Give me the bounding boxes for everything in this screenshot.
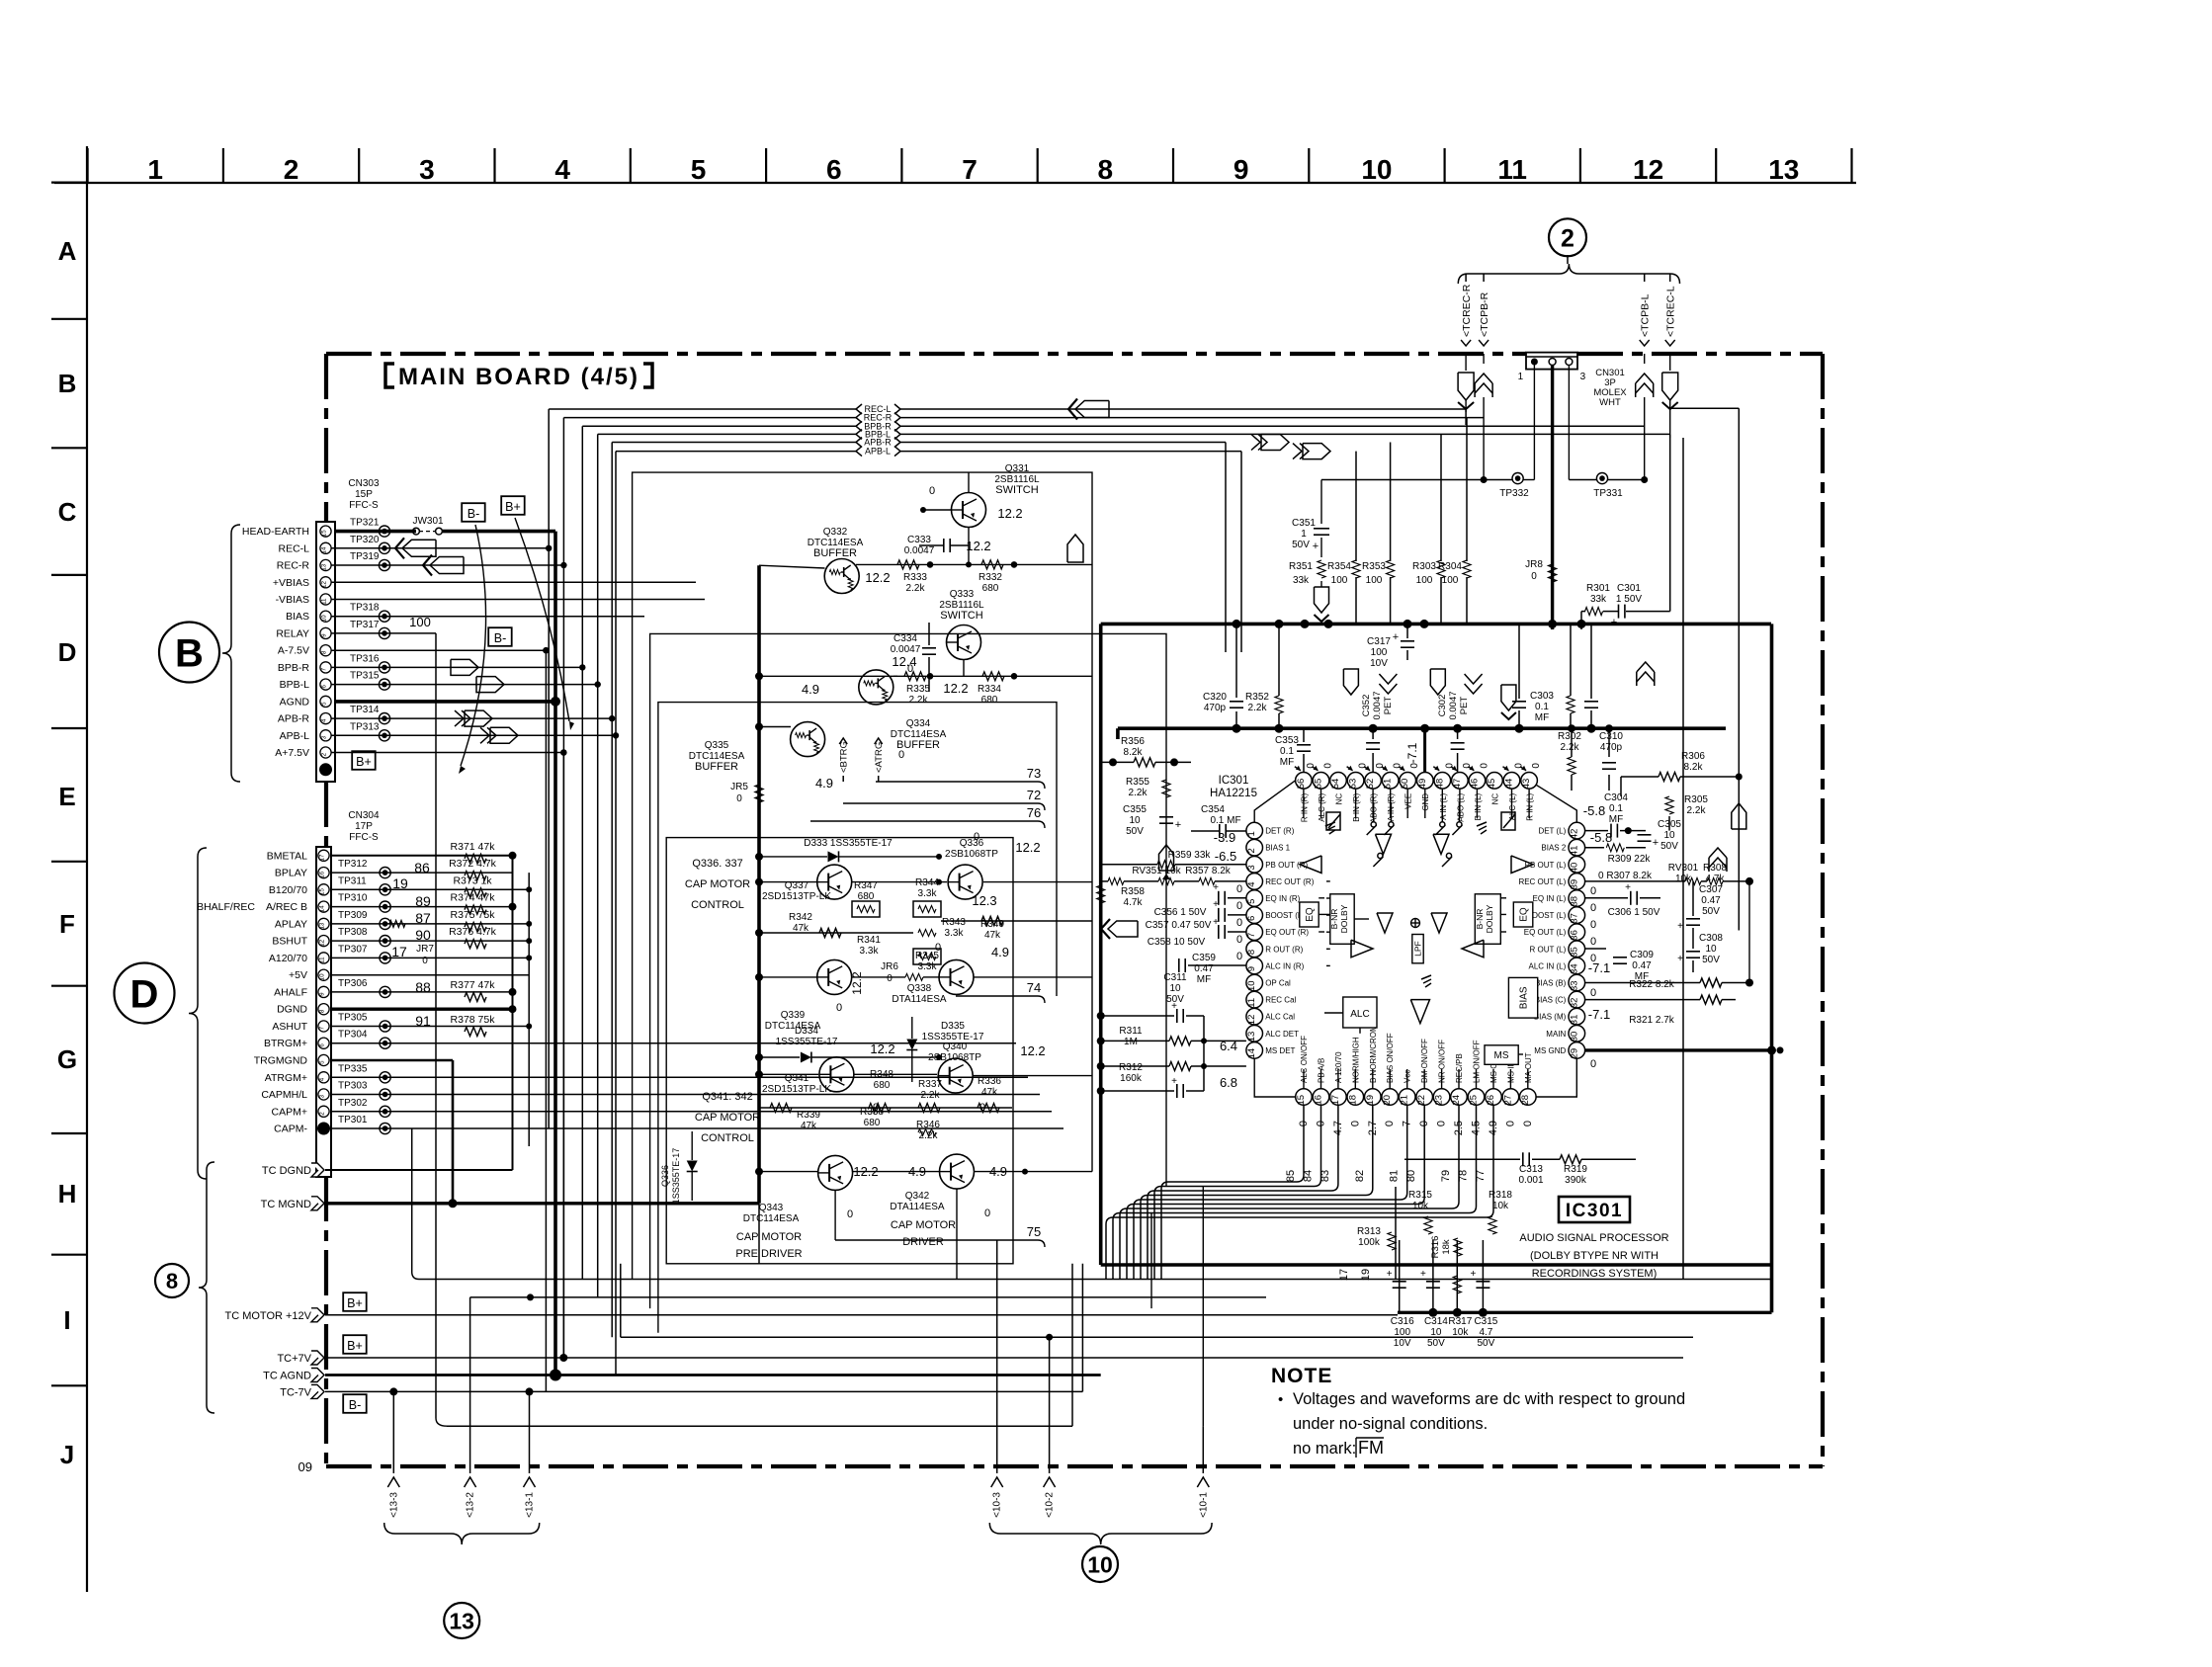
svg-text:NC: NC [1491,793,1500,805]
svg-text:6: 6 [321,685,328,689]
svg-text:C303: C303 [1530,691,1554,702]
svg-text:A+7.5V: A+7.5V [275,747,309,759]
svg-text:TP302: TP302 [338,1098,368,1109]
svg-text:+: + [1213,899,1219,910]
svg-text:RECORDINGS SYSTEM): RECORDINGS SYSTEM) [1532,1268,1658,1280]
svg-text:TP313: TP313 [350,721,380,732]
svg-text:BPB-L: BPB-L [280,679,310,691]
svg-text:10: 10 [1663,830,1675,841]
svg-text:APLAY: APLAY [275,918,307,930]
svg-text:C333: C333 [907,535,931,545]
svg-text:680: 680 [874,1080,891,1091]
svg-text:1: 1 [1246,831,1257,836]
svg-text:Q336: Q336 [660,1165,670,1187]
svg-text:I: I [63,1305,70,1335]
svg-text:75: 75 [1027,1224,1041,1239]
svg-text:R371 47k: R371 47k [451,841,496,853]
svg-text:C304: C304 [1604,792,1628,803]
svg-text:10: 10 [1169,983,1181,994]
svg-text:B+: B+ [356,755,372,769]
svg-text:C317: C317 [1367,636,1391,647]
svg-text:4.7k: 4.7k [1124,897,1144,908]
svg-text:R IN (L): R IN (L) [1526,792,1535,820]
svg-text:ALC Cal: ALC Cal [1265,1013,1295,1022]
svg-text:D: D [130,972,159,1016]
svg-text:+: + [1677,921,1683,932]
svg-text:10: 10 [1129,815,1141,826]
svg-text:0.1: 0.1 [1609,803,1623,814]
svg-text:B-: B- [468,507,480,521]
svg-text:JW301: JW301 [412,516,444,527]
svg-text:-6.5: -6.5 [1215,849,1236,864]
svg-text:0: 0 [836,1002,842,1014]
svg-text:H: H [58,1179,77,1209]
svg-text:0: 0 [736,793,742,804]
svg-text:6.4: 6.4 [1220,1039,1237,1053]
svg-text:18: 18 [1347,1095,1358,1106]
svg-text:R351: R351 [1289,561,1313,572]
svg-text:C305: C305 [1658,819,1681,830]
svg-text:•: • [1278,1391,1283,1408]
svg-text:D334: D334 [795,1026,818,1037]
svg-text:<ATRG: <ATRG [874,742,885,773]
svg-text:4: 4 [554,154,570,185]
svg-text:CN304: CN304 [348,810,380,821]
svg-text:E: E [58,782,75,811]
svg-text:TP305: TP305 [338,1013,368,1024]
svg-text:C311: C311 [1163,972,1187,983]
svg-text:15: 15 [319,888,326,895]
svg-text:AUDIO SIGNAL PROCESSOR: AUDIO SIGNAL PROCESSOR [1519,1232,1668,1244]
svg-text:12.2: 12.2 [870,1042,894,1056]
svg-text:R332: R332 [978,572,1002,583]
svg-text:7: 7 [319,1026,326,1030]
svg-text:ABO (L): ABO (L) [1456,792,1465,821]
svg-text:no mark:: no mark: [1293,1440,1356,1458]
svg-text:22: 22 [1416,1095,1427,1106]
svg-text:+: + [1171,1001,1177,1012]
svg-text:0.0047: 0.0047 [904,545,935,556]
svg-text:4: 4 [321,718,328,722]
svg-text:C352: C352 [1361,695,1372,717]
svg-text:B+: B+ [347,1339,363,1353]
svg-text:R342: R342 [789,912,812,923]
svg-text:1: 1 [1301,529,1307,540]
svg-text:37: 37 [1569,913,1579,924]
svg-text:83: 83 [1319,1170,1331,1182]
svg-text:8: 8 [1246,950,1257,955]
svg-text:C320: C320 [1203,692,1227,703]
svg-text:R317: R317 [1448,1316,1472,1327]
svg-text:MF: MF [1535,712,1549,723]
svg-text:3: 3 [1246,865,1257,870]
svg-text:Q341. 342: Q341. 342 [702,1091,752,1103]
svg-text:6: 6 [1246,916,1257,921]
svg-text:CAP MOTOR: CAP MOTOR [685,878,750,890]
svg-text:26: 26 [1486,1095,1496,1106]
svg-text:+VBIAS: +VBIAS [273,577,309,589]
svg-text:C306 1 50V: C306 1 50V [1608,907,1660,918]
svg-text:+: + [1420,1269,1426,1280]
svg-text:-7.1: -7.1 [1588,1007,1610,1022]
svg-text:B-NR: B-NR [1475,909,1485,930]
svg-text:HEAD-EARTH: HEAD-EARTH [242,526,309,538]
svg-text:50V: 50V [1702,906,1720,917]
svg-text:<10-2: <10-2 [1045,1492,1056,1518]
svg-text:D: D [58,637,77,667]
svg-text:DET (R): DET (R) [1265,827,1295,836]
svg-text:10k: 10k [1492,1201,1509,1211]
svg-text:ALC: ALC [1350,1009,1369,1020]
svg-text:8: 8 [1098,154,1114,185]
svg-text:47k: 47k [981,1087,998,1098]
svg-text:BUFFER: BUFFER [695,761,738,773]
svg-text:78: 78 [1458,1170,1470,1182]
svg-text:R378 75k: R378 75k [451,1014,496,1026]
svg-text:2: 2 [321,752,328,756]
svg-text:79: 79 [1440,1170,1452,1182]
svg-text:76: 76 [1027,805,1041,820]
svg-text:100: 100 [1366,575,1383,586]
svg-text:TP303: TP303 [338,1081,368,1092]
svg-text:R322 8.2k: R322 8.2k [1629,979,1675,990]
svg-text:39: 39 [1569,879,1579,890]
svg-text:A-7.5V: A-7.5V [278,645,309,657]
svg-text:<TCPB-L: <TCPB-L [1640,293,1652,337]
svg-text:EQ IN (R): EQ IN (R) [1265,894,1300,903]
svg-text:JR5: JR5 [730,782,748,792]
svg-text:10: 10 [1246,980,1257,991]
svg-text:-5.8: -5.8 [1583,803,1605,818]
svg-text:74: 74 [1027,980,1041,995]
svg-text:5: 5 [319,1060,326,1064]
svg-text:44: 44 [1504,779,1515,790]
svg-text:4: 4 [319,1077,326,1081]
svg-text:2SD1513TP-LK: 2SD1513TP-LK [762,891,831,902]
svg-text:14: 14 [319,905,326,912]
svg-text:0.0047: 0.0047 [1448,691,1459,719]
svg-text:C357 0.47 50V: C357 0.47 50V [1146,920,1212,931]
svg-text:MAIN: MAIN [1546,1030,1566,1039]
svg-text:51: 51 [1383,779,1394,790]
svg-text:1SS355TE-17: 1SS355TE-17 [671,1148,681,1205]
svg-text:FFC-S: FFC-S [349,500,379,511]
svg-text:52: 52 [1365,779,1376,790]
svg-text:16: 16 [319,871,326,877]
svg-text:BIAS (M): BIAS (M) [1534,1013,1567,1022]
svg-text:2: 2 [1561,224,1574,252]
svg-text:12.2: 12.2 [966,539,990,553]
svg-text:3.3k: 3.3k [945,928,965,939]
svg-text:CAPM+: CAPM+ [272,1106,307,1118]
svg-text:B IN (L): B IN (L) [1474,792,1483,820]
svg-text:82: 82 [1354,1170,1366,1182]
svg-text:17P: 17P [355,821,373,832]
svg-text:3: 3 [419,154,435,185]
svg-text:+: + [1625,882,1631,893]
svg-text:13: 13 [319,922,326,929]
svg-text:-7.1: -7.1 [1405,742,1419,763]
svg-text:0: 0 [1236,951,1242,962]
svg-text:TC AGND: TC AGND [263,1371,311,1382]
svg-text:12.2: 12.2 [997,506,1022,521]
svg-text:0: 0 [979,1102,985,1114]
svg-text:15: 15 [321,530,328,537]
svg-text:SWITCH: SWITCH [940,610,982,622]
svg-text:R341: R341 [857,935,881,946]
svg-text:-VBIAS: -VBIAS [276,594,309,606]
svg-text:TP312: TP312 [338,859,368,870]
svg-text:13: 13 [1768,154,1799,185]
svg-text:73: 73 [1027,766,1041,781]
svg-text:680: 680 [982,583,999,594]
svg-text:0.0047: 0.0047 [1372,691,1383,719]
svg-text:0: 0 [1349,1121,1361,1126]
svg-text:ALC DET: ALC DET [1265,1030,1299,1039]
svg-text:REC-R: REC-R [277,560,310,572]
svg-text:R303: R303 [1412,561,1436,572]
svg-text:C307: C307 [1699,884,1723,895]
svg-text:Q334: Q334 [906,718,931,729]
svg-text:B: B [58,369,77,398]
svg-text:J: J [60,1440,74,1469]
svg-text:16: 16 [1314,1095,1324,1106]
svg-text:R OUT (L): R OUT (L) [1530,945,1567,954]
svg-text:28: 28 [1520,1095,1531,1106]
svg-text:CAP MOTOR: CAP MOTOR [891,1219,956,1231]
svg-text:2SB1068TP: 2SB1068TP [945,849,998,860]
svg-text:2.2k: 2.2k [1687,805,1707,816]
svg-text:NC: NC [1335,793,1344,805]
svg-text:3: 3 [1580,372,1586,382]
svg-text:IC301: IC301 [1219,775,1249,787]
svg-text:17: 17 [391,944,407,959]
svg-text:TP307: TP307 [338,944,368,955]
svg-text:2.2k: 2.2k [906,583,926,594]
svg-text:R313: R313 [1357,1226,1381,1237]
svg-text:0: 0 [1384,1121,1396,1126]
svg-text:32: 32 [1569,998,1579,1009]
svg-text:C358 10 50V: C358 10 50V [1148,937,1206,948]
svg-text:80: 80 [1405,1170,1417,1182]
svg-text:BIAS: BIAS [286,611,309,623]
svg-text:81: 81 [1389,1170,1401,1182]
svg-text:2.2k: 2.2k [909,695,929,706]
svg-text:0: 0 [1531,763,1542,769]
svg-text:R315: R315 [1408,1190,1432,1201]
svg-text:R358: R358 [1121,886,1145,897]
svg-text:38: 38 [1569,896,1579,907]
svg-text:DOLBY: DOLBY [1485,904,1494,933]
svg-text:0: 0 [1590,885,1596,897]
svg-text:TP315: TP315 [350,671,380,682]
svg-text:34: 34 [1569,963,1579,974]
svg-text:TP319: TP319 [350,551,380,562]
svg-text:C359: C359 [1192,953,1216,963]
svg-text:+: + [1393,631,1399,643]
svg-text:12.2: 12.2 [850,971,864,995]
svg-text:JR6: JR6 [881,961,898,972]
svg-text:(DOLBY BTYPE NR WITH: (DOLBY BTYPE NR WITH [1530,1250,1659,1262]
svg-text:35: 35 [1569,947,1579,958]
svg-text:0: 0 [1590,987,1596,999]
svg-text:C334: C334 [893,633,917,644]
svg-text:53: 53 [1348,779,1359,790]
svg-text:C302: C302 [1437,695,1448,717]
svg-text:JR8: JR8 [1525,559,1543,570]
svg-text:4: 4 [1246,881,1257,886]
svg-text:G: G [57,1044,77,1074]
svg-text:30: 30 [1569,1032,1579,1042]
svg-text:5: 5 [321,702,328,706]
svg-text:R334: R334 [978,684,1001,695]
svg-text:1: 1 [1518,372,1524,382]
svg-text:0: 0 [929,485,935,497]
svg-text:50V: 50V [1478,1338,1495,1349]
svg-text:Q331: Q331 [1005,463,1030,474]
svg-text:2.2k: 2.2k [921,1090,941,1101]
svg-text:10: 10 [1705,944,1717,955]
svg-text:REC OUT (L): REC OUT (L) [1518,877,1566,886]
svg-text:MF: MF [1280,757,1294,768]
svg-text:0: 0 [1590,936,1596,948]
svg-text:C314: C314 [1424,1316,1448,1327]
svg-text:C353: C353 [1275,735,1299,746]
svg-text:42: 42 [1569,829,1579,840]
svg-text:40: 40 [1569,863,1579,874]
svg-text:D333 1SS355TE-17: D333 1SS355TE-17 [804,838,893,849]
svg-text:CAP MOTOR: CAP MOTOR [695,1112,760,1124]
svg-text:DTA114ESA: DTA114ESA [890,1202,945,1212]
svg-text:0: 0 [898,749,904,761]
svg-text:B+: B+ [505,500,521,514]
svg-text:0.1: 0.1 [1280,746,1294,757]
svg-text:0: 0 [1590,902,1596,914]
svg-text:4.9: 4.9 [815,776,833,791]
svg-text:APB-R: APB-R [278,713,310,725]
svg-text:-5.8: -5.8 [1590,830,1612,845]
svg-text:REC OUT (R): REC OUT (R) [1265,877,1315,886]
svg-text:R354: R354 [1327,561,1351,572]
svg-text:0: 0 [974,831,979,843]
svg-text:3: 3 [319,1094,326,1098]
svg-text:TC-7V: TC-7V [280,1386,311,1398]
svg-text:TP314: TP314 [350,705,380,715]
svg-text:B IN (R): B IN (R) [1352,792,1361,821]
svg-text:49: 49 [1417,779,1428,790]
svg-text:10k: 10k [1452,1327,1469,1338]
svg-text:<TCREC-R: <TCREC-R [1461,284,1473,337]
svg-text:TP311: TP311 [338,875,367,886]
svg-text:100: 100 [1394,1327,1410,1338]
svg-text:R302: R302 [1558,731,1581,742]
svg-text:LPF: LPF [1413,941,1423,957]
svg-text:470p: 470p [1600,742,1623,753]
svg-text:TRGMGND: TRGMGND [254,1055,308,1067]
svg-text:6: 6 [826,154,842,185]
svg-text:TP310: TP310 [338,893,368,904]
svg-text:47k: 47k [801,1121,817,1131]
svg-text:C315: C315 [1474,1316,1497,1327]
svg-text:C354: C354 [1201,804,1225,815]
svg-text:R333: R333 [903,572,927,583]
svg-text:Q336. 337: Q336. 337 [692,858,742,870]
svg-text:29: 29 [1569,1048,1579,1059]
svg-text:31: 31 [1569,1015,1579,1026]
svg-text:0: 0 [1236,900,1242,912]
svg-text:R375 75k: R375 75k [451,909,496,921]
svg-text:6: 6 [319,1043,326,1047]
svg-text:C: C [58,497,77,527]
svg-text:BMETAL: BMETAL [267,850,307,862]
svg-text:10: 10 [1430,1327,1442,1338]
svg-text:11: 11 [1497,154,1527,185]
svg-text:R344: R344 [915,877,939,888]
svg-text:R IN (R): R IN (R) [1300,792,1309,822]
svg-text:C355: C355 [1123,804,1147,815]
svg-text:TP309: TP309 [338,910,368,921]
svg-text:680: 680 [981,695,998,706]
svg-text:C309: C309 [1630,950,1654,960]
svg-text:10k: 10k [1412,1201,1429,1211]
svg-text:12.3: 12.3 [972,893,996,908]
svg-text:<TCPB-R: <TCPB-R [1479,292,1490,337]
svg-text:11: 11 [319,957,326,963]
svg-text:19: 19 [1365,1095,1376,1106]
svg-text:0.1: 0.1 [1535,702,1549,712]
svg-text:TP335: TP335 [338,1063,368,1074]
svg-text:F: F [59,909,75,939]
svg-text:50V: 50V [1427,1338,1445,1349]
svg-text:24: 24 [1451,1095,1462,1106]
svg-text:13: 13 [449,1608,474,1633]
svg-text:JR7: JR7 [416,944,434,955]
svg-text:3.3k: 3.3k [918,961,938,972]
svg-text:TC MOTOR +12V: TC MOTOR +12V [224,1310,311,1322]
svg-text:11: 11 [321,598,328,605]
svg-text:PET: PET [1383,697,1394,715]
svg-text:9: 9 [319,992,326,996]
svg-text:<10-1: <10-1 [1198,1492,1209,1518]
svg-text:MF: MF [1609,814,1623,825]
svg-text:0: 0 [1236,917,1242,929]
svg-text:EQ IN (L): EQ IN (L) [1533,894,1567,903]
svg-text:BSHUT: BSHUT [272,936,307,948]
svg-text:VEE: VEE [1404,793,1413,809]
svg-text:C356 1 50V: C356 1 50V [1154,907,1207,918]
svg-text:43: 43 [1521,779,1532,790]
svg-text:EQ: EQ [1305,907,1316,922]
svg-text:MF: MF [1197,974,1211,985]
svg-text:2.2k: 2.2k [1248,703,1268,713]
svg-text:+: + [1213,917,1219,928]
svg-text:12.2: 12.2 [1015,840,1040,855]
svg-text:R306: R306 [1681,751,1705,762]
svg-text:DGND: DGND [277,1004,307,1016]
svg-text:0: 0 [1590,919,1596,931]
svg-text:0.001: 0.001 [1518,1175,1543,1186]
svg-text:+: + [1171,1076,1177,1087]
svg-text:<13-2: <13-2 [466,1492,476,1518]
svg-text:47: 47 [1452,779,1463,790]
svg-text:0: 0 [1522,1121,1534,1126]
svg-text:14: 14 [1246,1048,1257,1059]
svg-text:R357 8.2k: R357 8.2k [1185,866,1232,876]
svg-text:3.3k: 3.3k [918,888,938,899]
svg-text:680: 680 [864,1118,881,1128]
svg-text:9: 9 [1234,154,1249,185]
svg-text:2: 2 [1246,848,1257,853]
